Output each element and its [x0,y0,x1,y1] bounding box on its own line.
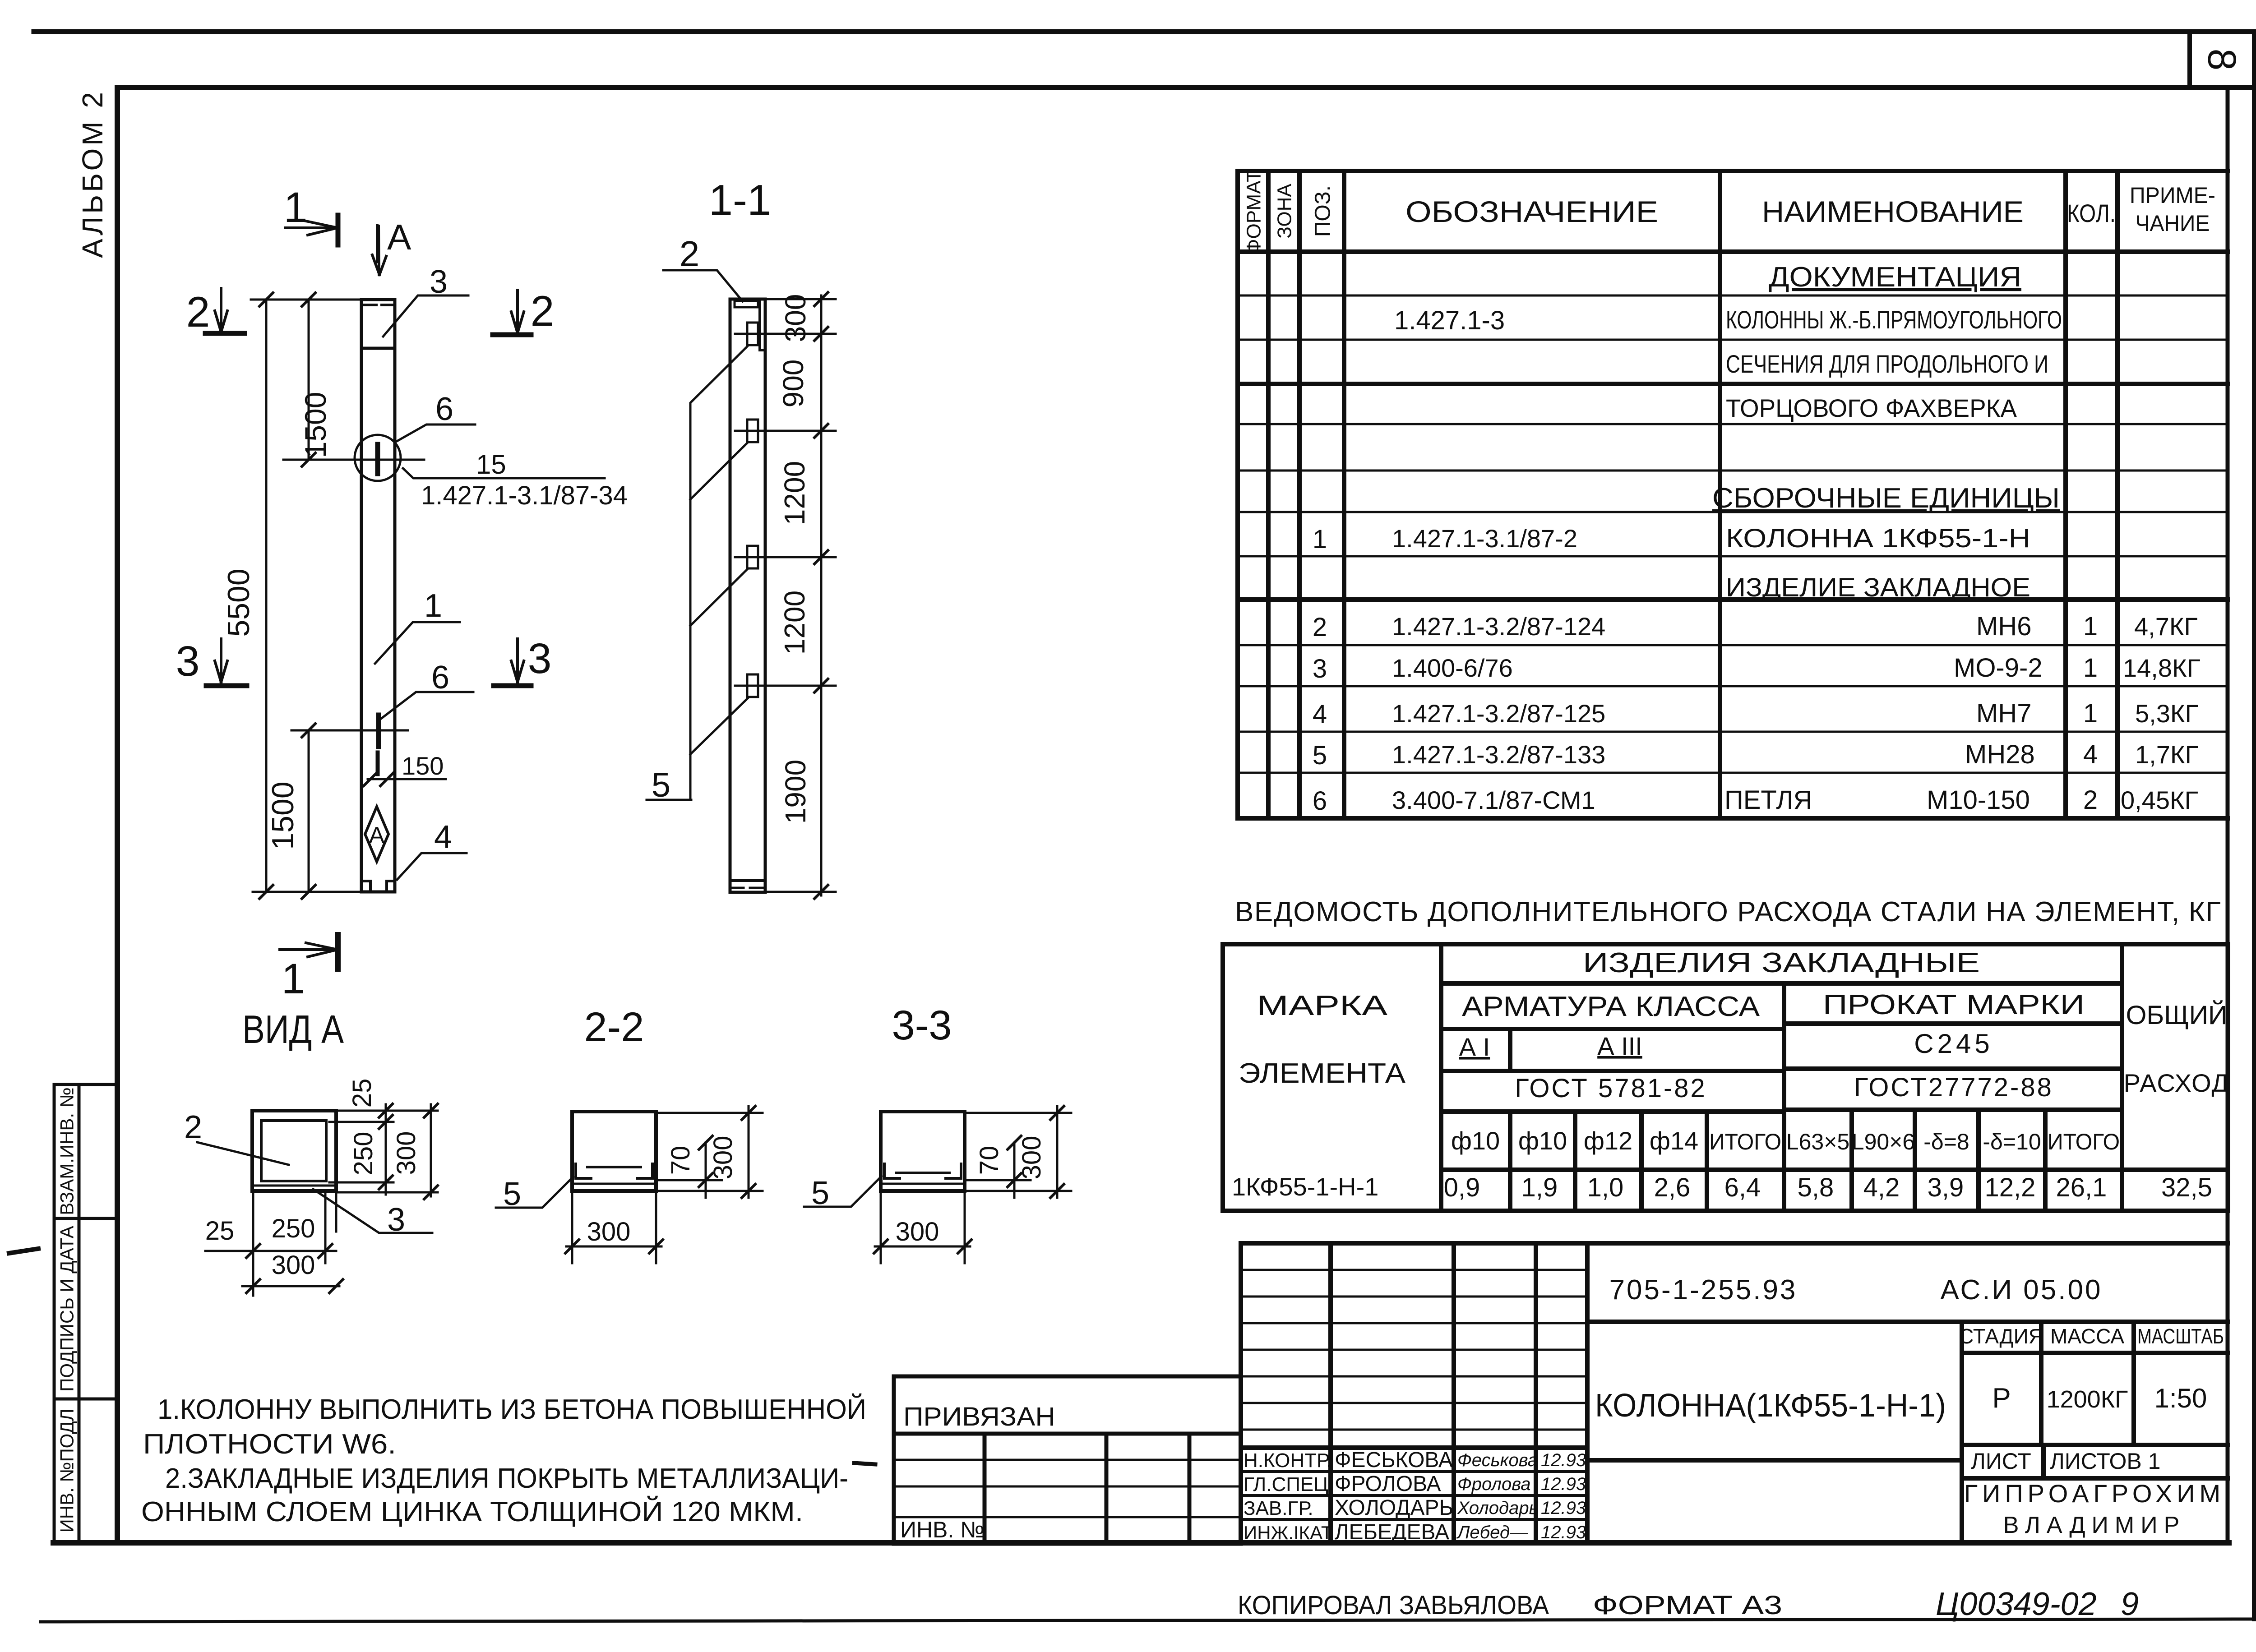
svg-text:1,7КГ: 1,7КГ [2135,740,2199,769]
bottom captions [1238,1586,2139,1622]
svg-text:АС.И 05.00: АС.И 05.00 [1941,1274,2103,1306]
svg-text:ОБОЗНАЧЕНИЕ: ОБОЗНАЧЕНИЕ [1405,195,1658,228]
sheet top edge line [34,29,2255,34]
svg-text:250: 250 [349,1132,378,1176]
svg-text:0,45КГ: 0,45КГ [2121,786,2198,814]
svg-text:АЛЬБОМ 2: АЛЬБОМ 2 [76,89,109,258]
svg-text:1: 1 [284,184,308,231]
svg-text:25: 25 [205,1216,235,1246]
embed mark 5 no.2 [747,420,758,442]
bottom double line [572,1183,656,1185]
svg-text:Р: Р [1992,1383,2011,1414]
svg-text:1: 1 [2083,653,2098,683]
svg-text:70: 70 [975,1146,1004,1175]
svg-text:ЗАВ.ГР.: ЗАВ.ГР. [1244,1497,1313,1519]
hidden plate dashed line [365,304,392,306]
svg-text:3.400-7.1/87-СМ1: 3.400-7.1/87-СМ1 [1392,786,1595,814]
svg-text:1: 1 [424,588,442,624]
svg-text:ГЛ.СПЕЦ.: ГЛ.СПЕЦ. [1244,1473,1334,1495]
svg-text:15: 15 [476,449,506,480]
svg-text:ГОСТ27772-88: ГОСТ27772-88 [1854,1073,2053,1102]
svg-text:ИНВ. №ПОДЛ: ИНВ. №ПОДЛ [56,1409,78,1533]
svg-text:300: 300 [1017,1136,1046,1180]
vedomost table texts [1232,947,2229,1202]
svg-text:НАИМЕНОВАНИЕ: НАИМЕНОВАНИЕ [1762,195,2024,228]
svg-text:А III: А III [1597,1032,1642,1060]
svg-text:2: 2 [186,288,210,336]
svg-text:6: 6 [435,391,453,427]
svg-text:ф10: ф10 [1518,1126,1567,1155]
top block bottom line [361,347,395,350]
svg-text:1.427.1-3: 1.427.1-3 [1394,306,1505,335]
svg-text:2-2: 2-2 [584,1004,644,1050]
svg-text:ГОСТ 5781-82: ГОСТ 5781-82 [1515,1074,1707,1103]
svg-text:1: 1 [2083,699,2098,728]
svg-text:900: 900 [777,360,809,408]
svg-text:ЗОНА: ЗОНА [1274,184,1296,239]
svg-text:ф12: ф12 [1584,1126,1632,1155]
svg-text:3: 3 [1313,654,1327,683]
outline [881,1112,965,1191]
channel item 5 [576,1164,652,1178]
svg-text:705-1-255.93: 705-1-255.93 [1609,1274,1798,1306]
title block texts [1244,1274,2225,1544]
svg-text:150: 150 [402,752,444,780]
leader item 6 upper [395,391,475,442]
svg-text:1.427.1-3.2/87-125: 1.427.1-3.2/87-125 [1392,699,1605,728]
specification table grid [1238,171,2228,818]
svg-text:6: 6 [1313,786,1327,816]
privyazan box [894,1376,1241,1544]
svg-text:МН6: МН6 [1976,612,2031,641]
3-3 bottom dim [875,1191,970,1263]
svg-text:ИЗДЕЛИЯ ЗАКЛАДНЫЕ: ИЗДЕЛИЯ ЗАКЛАДНЫЕ [1583,947,1980,978]
title block signature rows [1241,1472,1587,1519]
svg-text:ПРИМЕ-: ПРИМЕ- [2130,183,2215,208]
svg-text:МАССА: МАССА [2050,1324,2124,1348]
outline [572,1112,656,1191]
svg-text:А: А [369,822,385,849]
svg-text:1: 1 [282,955,305,1003]
leader item 4 bottom [397,819,467,880]
leader item 2 (section) [663,234,743,301]
svg-text:4: 4 [1313,700,1327,729]
svg-text:4: 4 [434,819,452,855]
diamond grade mark A [365,807,388,862]
svg-text:С245: С245 [1914,1029,1993,1059]
svg-text:ЭЛЕМЕНТА: ЭЛЕМЕНТА [1239,1058,1406,1089]
column outline [730,299,765,892]
section 1-1 dim ticks [814,292,828,899]
3-3 right dims [965,1106,1071,1198]
svg-text:5: 5 [1313,741,1327,770]
svg-text:1500: 1500 [299,392,332,458]
svg-text:МО-9-2: МО-9-2 [1954,653,2043,683]
svg-text:Н.КОНТР.: Н.КОНТР. [1244,1449,1331,1472]
vid A right dims [329,1104,438,1196]
svg-text:КОЛОННЫ Ж.-Б.ПРЯМОУГОЛЬНОГО: КОЛОННЫ Ж.-Б.ПРЯМОУГОЛЬНОГО [1726,305,2062,334]
bottom plate line item 3 [252,1185,336,1187]
svg-text:1: 1 [1313,525,1327,554]
svg-text:4,7КГ: 4,7КГ [2134,612,2198,641]
svg-text:5: 5 [503,1176,521,1212]
svg-text:2,6: 2,6 [1654,1173,1691,1202]
bottom solid line [730,879,765,882]
svg-text:5,3КГ: 5,3КГ [2135,699,2199,728]
svg-text:1.КОЛОННУ ВЫПОЛНИТЬ ИЗ БЕТОНА: 1.КОЛОННУ ВЫПОЛНИТЬ ИЗ БЕТОНА ПОВЫШЕННОЙ [157,1394,866,1425]
svg-text:3: 3 [430,264,448,300]
left stamp strip [54,1084,117,1543]
svg-text:МН28: МН28 [1965,740,2035,769]
svg-text:3: 3 [176,637,200,685]
svg-text:9: 9 [2121,1586,2139,1622]
outer square [252,1111,336,1191]
leader item 6 lower [380,660,473,720]
svg-text:ОННЫМ СЛОЕМ ЦИНКА ТОЛЩИНОЙ 120: ОННЫМ СЛОЕМ ЦИНКА ТОЛЩИНОЙ 120 МКМ. [141,1496,803,1527]
svg-text:12,2: 12,2 [1985,1173,2036,1202]
svg-text:ФОРМАТ: ФОРМАТ [1243,170,1265,254]
svg-text:2: 2 [531,287,555,335]
svg-text:СТАДИЯ: СТАДИЯ [1959,1324,2043,1348]
svg-text:6,4: 6,4 [1724,1173,1761,1202]
svg-text:Фролова: Фролова [1457,1474,1530,1494]
inner square item 2 plate [261,1121,326,1181]
svg-text:ИНЖ.IКАТ: ИНЖ.IКАТ [1244,1522,1333,1543]
section marker 1 bottom [280,935,338,1003]
svg-text:0,9: 0,9 [1444,1173,1480,1202]
svg-text:РАСХОД: РАСХОД [2124,1069,2230,1097]
svg-text:1.427.1-3.2/87-133: 1.427.1-3.2/87-133 [1392,740,1605,769]
svg-text:5: 5 [652,766,670,804]
svg-text:300: 300 [779,294,812,342]
flange item 2 right [760,301,765,350]
page number box [2190,32,2255,88]
svg-text:СЕЧЕНИЯ ДЛЯ ПРОДОЛЬНОГО И: СЕЧЕНИЯ ДЛЯ ПРОДОЛЬНОГО И [1726,350,2048,378]
svg-text:1.427.1-3.1/87-2: 1.427.1-3.1/87-2 [1392,524,1577,553]
title block upper grid thin rows [1241,1270,1587,1521]
vid A bottom dims [205,1191,339,1296]
svg-text:1,9: 1,9 [1521,1173,1558,1202]
svg-text:ПОЗ.: ПОЗ. [1311,185,1335,237]
svg-text:ПРОКАТ МАРКИ: ПРОКАТ МАРКИ [1823,989,2085,1020]
embed mark 5 no.4 [747,674,758,697]
svg-text:ИТОГО: ИТОГО [1709,1129,1781,1154]
svg-text:КОЛ.: КОЛ. [2067,199,2116,227]
leader item 5 collect [647,346,748,804]
svg-text:ф14: ф14 [1650,1126,1698,1155]
svg-text:М10-150: М10-150 [1927,785,2030,815]
svg-text:250: 250 [272,1214,315,1243]
leader item 3 top plate [383,264,468,337]
leader item 1 column [375,588,460,664]
svg-text:8: 8 [2200,49,2245,71]
svg-text:1200КГ: 1200КГ [2047,1386,2128,1413]
svg-text:ИТОГО: ИТОГО [2048,1129,2120,1154]
embed mark 5 no.1 [747,323,758,345]
title block grid [1241,1243,2228,1543]
column outline item 1 [361,300,395,892]
svg-text:ф10: ф10 [1451,1126,1500,1155]
leader 3 (vid A) [313,1189,432,1238]
svg-text:ЛЕБЕДЕВА: ЛЕБЕДЕВА [1335,1520,1449,1544]
svg-text:ДОКУМЕНТАЦИЯ: ДОКУМЕНТАЦИЯ [1769,262,2021,293]
svg-text:СБОРОЧНЫЕ ЕДИНИЦЫ: СБОРОЧНЫЕ ЕДИНИЦЫ [1712,483,2060,514]
svg-text:1.427.1-3.1/87-34: 1.427.1-3.1/87-34 [421,481,628,510]
svg-text:ВИД А: ВИД А [242,1007,344,1052]
svg-text:300: 300 [708,1136,738,1180]
sheet bottom edge line [41,1619,2256,1622]
leader 15 / series ref [403,449,628,510]
svg-text:А: А [387,217,411,257]
svg-text:Ц00349-02: Ц00349-02 [1936,1586,2097,1622]
svg-text:КОЛОННА(1КФ55-1-Н-1): КОЛОННА(1КФ55-1-Н-1) [1595,1388,1946,1424]
svg-text:6: 6 [431,660,449,696]
svg-text:КОЛОННА 1КФ55-1-Н: КОЛОННА 1КФ55-1-Н [1726,524,2030,553]
svg-text:-δ=10: -δ=10 [1983,1129,2041,1154]
leader 5 (3-3) [804,1175,882,1211]
embed mark 5 no.3 [747,546,758,568]
svg-text:300: 300 [272,1251,315,1280]
dimension 5500 [251,300,446,892]
svg-text:1: 1 [2083,612,2098,641]
svg-text:2: 2 [1313,613,1327,642]
2-2 right dims [656,1106,763,1198]
svg-text:L90×6: L90×6 [1852,1129,1915,1154]
svg-text:5500: 5500 [222,568,256,637]
section marker 2 right [493,287,554,335]
detail circle [355,435,401,481]
svg-text:1200: 1200 [778,461,811,525]
svg-text:ТОРЦОВОГО ФАХВЕРКА: ТОРЦОВОГО ФАХВЕРКА [1726,394,2017,422]
svg-text:1500: 1500 [266,781,300,849]
svg-text:12.93: 12.93 [1541,1498,1586,1518]
svg-text:КОПИРОВАЛ ЗАВЬЯЛОВА: КОПИРОВАЛ ЗАВЬЯЛОВА [1238,1591,1549,1620]
bottom double line [881,1183,965,1185]
svg-text:2: 2 [184,1109,202,1145]
bottom notch right item 4 [387,881,395,892]
svg-text:12.93: 12.93 [1541,1474,1586,1494]
section 1-1 dim texts [777,294,812,824]
svg-text:L63×5: L63×5 [1786,1129,1849,1154]
svg-text:ИНВ. №: ИНВ. № [900,1517,985,1542]
svg-text:ФРОЛОВА: ФРОЛОВА [1335,1472,1441,1496]
svg-text:ПРИВЯЗАН: ПРИВЯЗАН [903,1402,1055,1431]
svg-text:3: 3 [387,1202,405,1238]
svg-text:300: 300 [392,1131,421,1175]
plate item 2 top [735,301,758,307]
svg-text:14,8КГ: 14,8КГ [2123,654,2201,682]
svg-text:1.427.1-3.2/87-124: 1.427.1-3.2/87-124 [1392,612,1605,641]
svg-text:-δ=8: -δ=8 [1923,1129,1969,1154]
svg-text:2: 2 [2083,785,2098,815]
leader 5 (2-2) [496,1176,573,1212]
svg-text:3: 3 [528,635,552,683]
svg-text:12.93: 12.93 [1541,1450,1586,1470]
svg-text:4,2: 4,2 [1863,1173,1900,1202]
svg-text:ОБЩИЙ: ОБЩИЙ [2126,1001,2228,1030]
section 1-1 dimension lines [735,295,836,895]
stray pencil dash near privyazan [854,1463,875,1464]
svg-text:ФЕСЬКОВА: ФЕСЬКОВА [1335,1448,1453,1472]
svg-text:МАРКА: МАРКА [1257,990,1388,1021]
specification table texts [1243,170,2216,816]
svg-text:Феськова: Феськова [1457,1450,1538,1470]
svg-text:26,1: 26,1 [2056,1173,2107,1202]
svg-text:МН7: МН7 [1976,699,2031,728]
svg-text:ВЗАМ.ИНВ. №: ВЗАМ.ИНВ. № [56,1087,78,1215]
svg-text:3,9: 3,9 [1928,1173,1964,1202]
svg-text:1,0: 1,0 [1587,1173,1624,1202]
inner right margin line [2226,88,2230,1543]
svg-text:1900: 1900 [779,760,812,824]
svg-text:300: 300 [587,1217,631,1246]
svg-text:ИЗДЕЛИЕ ЗАКЛАДНОЕ: ИЗДЕЛИЕ ЗАКЛАДНОЕ [1726,573,2030,602]
leader 2 (vid A) [184,1109,289,1165]
svg-text:5: 5 [811,1175,829,1211]
svg-text:ХОЛОДАРЬ: ХОЛОДАРЬ [1335,1496,1453,1520]
svg-text:25: 25 [347,1079,377,1108]
svg-text:1200: 1200 [778,591,811,655]
svg-text:ПЛОТНОСТИ W6.: ПЛОТНОСТИ W6. [143,1429,396,1460]
svg-text:5,8: 5,8 [1798,1173,1834,1202]
svg-text:ЛИСТОВ 1: ЛИСТОВ 1 [2050,1449,2160,1474]
vedomost table grid [1223,944,2228,1211]
svg-text:ФОРМАТ А3: ФОРМАТ А3 [1593,1591,1782,1620]
channel item 5 [884,1164,961,1178]
svg-text:ЧАНИЕ: ЧАНИЕ [2136,211,2210,236]
svg-text:2: 2 [680,234,700,274]
section marker 2 left [186,288,245,336]
dim texts [222,392,444,850]
svg-text:3-3: 3-3 [892,1002,952,1048]
svg-text:ПЕТЛЯ: ПЕТЛЯ [1724,785,1812,815]
stray pencil dash left margin [9,1249,38,1253]
svg-text:1КФ55-1-Н-1: 1КФ55-1-Н-1 [1232,1172,1378,1201]
svg-text:АРМАТУРА КЛАССА: АРМАТУРА КЛАССА [1462,991,1760,1022]
svg-text:1:50: 1:50 [2154,1383,2207,1413]
svg-text:1.400-6/76: 1.400-6/76 [1392,654,1513,682]
svg-text:А I: А I [1459,1033,1490,1061]
svg-text:12.93: 12.93 [1541,1523,1586,1542]
view arrow A [372,217,411,275]
svg-text:1-1: 1-1 [709,176,772,224]
svg-text:2.ЗАКЛАДНЫЕ ИЗДЕЛИЯ ПОКРЫТЬ МЕ: 2.ЗАКЛАДНЫЕ ИЗДЕЛИЯ ПОКРЫТЬ МЕТАЛЛИЗАЦИ- [165,1463,848,1494]
svg-text:ЛИСТ: ЛИСТ [1971,1449,2031,1474]
svg-text:32,5: 32,5 [2161,1173,2212,1202]
svg-text:Холодарь: Холодарь [1457,1498,1539,1518]
svg-text:4: 4 [2083,740,2098,769]
bottom dashed line [730,887,765,889]
svg-text:70: 70 [666,1146,695,1175]
dimension ticks [259,293,394,899]
upper loop mark item 6 [375,444,380,474]
svg-text:МАСШТАБ: МАСШТАБ [2137,1324,2224,1348]
lower loop mark second [376,752,380,774]
svg-text:ВЛАДИМИР: ВЛАДИМИР [2003,1512,2186,1538]
section marker 3 left [176,637,247,686]
svg-text:300: 300 [896,1217,939,1246]
section marker 3 right [494,635,551,686]
svg-text:ГИПРОАГРОХИМ: ГИПРОАГРОХИМ [1964,1479,2225,1508]
svg-text:ПОДПИСЬ И ДАТА: ПОДПИСЬ И ДАТА [56,1226,78,1392]
section marker 1 top [284,184,338,245]
2-2 bottom dim [566,1191,661,1263]
bottom notch left item 4 [361,881,370,892]
lower loop mark item 6 [376,715,381,747]
svg-text:Лебед—: Лебед— [1456,1523,1528,1542]
